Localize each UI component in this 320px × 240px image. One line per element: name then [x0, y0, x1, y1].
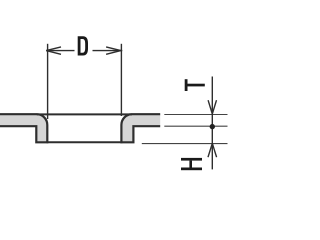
dimension line D right segment with arrow: [93, 47, 123, 54]
arrow down to top of plate: [208, 100, 216, 114]
right cross-section piece (down flange + plate, cut at right end): [121, 114, 160, 142]
leader line: bottom of flange (for H): [142, 143, 228, 145]
label D: [78, 36, 88, 55]
extension line left (D): [47, 44, 49, 119]
wire: far flange bottom line across hole: [47, 141, 123, 143]
leader line: bottom of plate (for T/H): [164, 125, 227, 127]
label T (rotated 90): [185, 79, 205, 91]
dimension line D left segment with arrow: [46, 47, 74, 54]
wire: top surface line across hole: [37, 113, 132, 115]
leader line: top of plate (for T): [164, 114, 227, 116]
arrow up to bottom of flange: [208, 143, 217, 157]
left cross-section piece (plate + down flange): [0, 114, 47, 142]
extension line right (D): [120, 44, 122, 116]
label H (rotated 90): [181, 158, 202, 170]
dot terminator at bottom of plate: [210, 124, 215, 129]
vertical dimension line (T/H): [211, 77, 213, 170]
